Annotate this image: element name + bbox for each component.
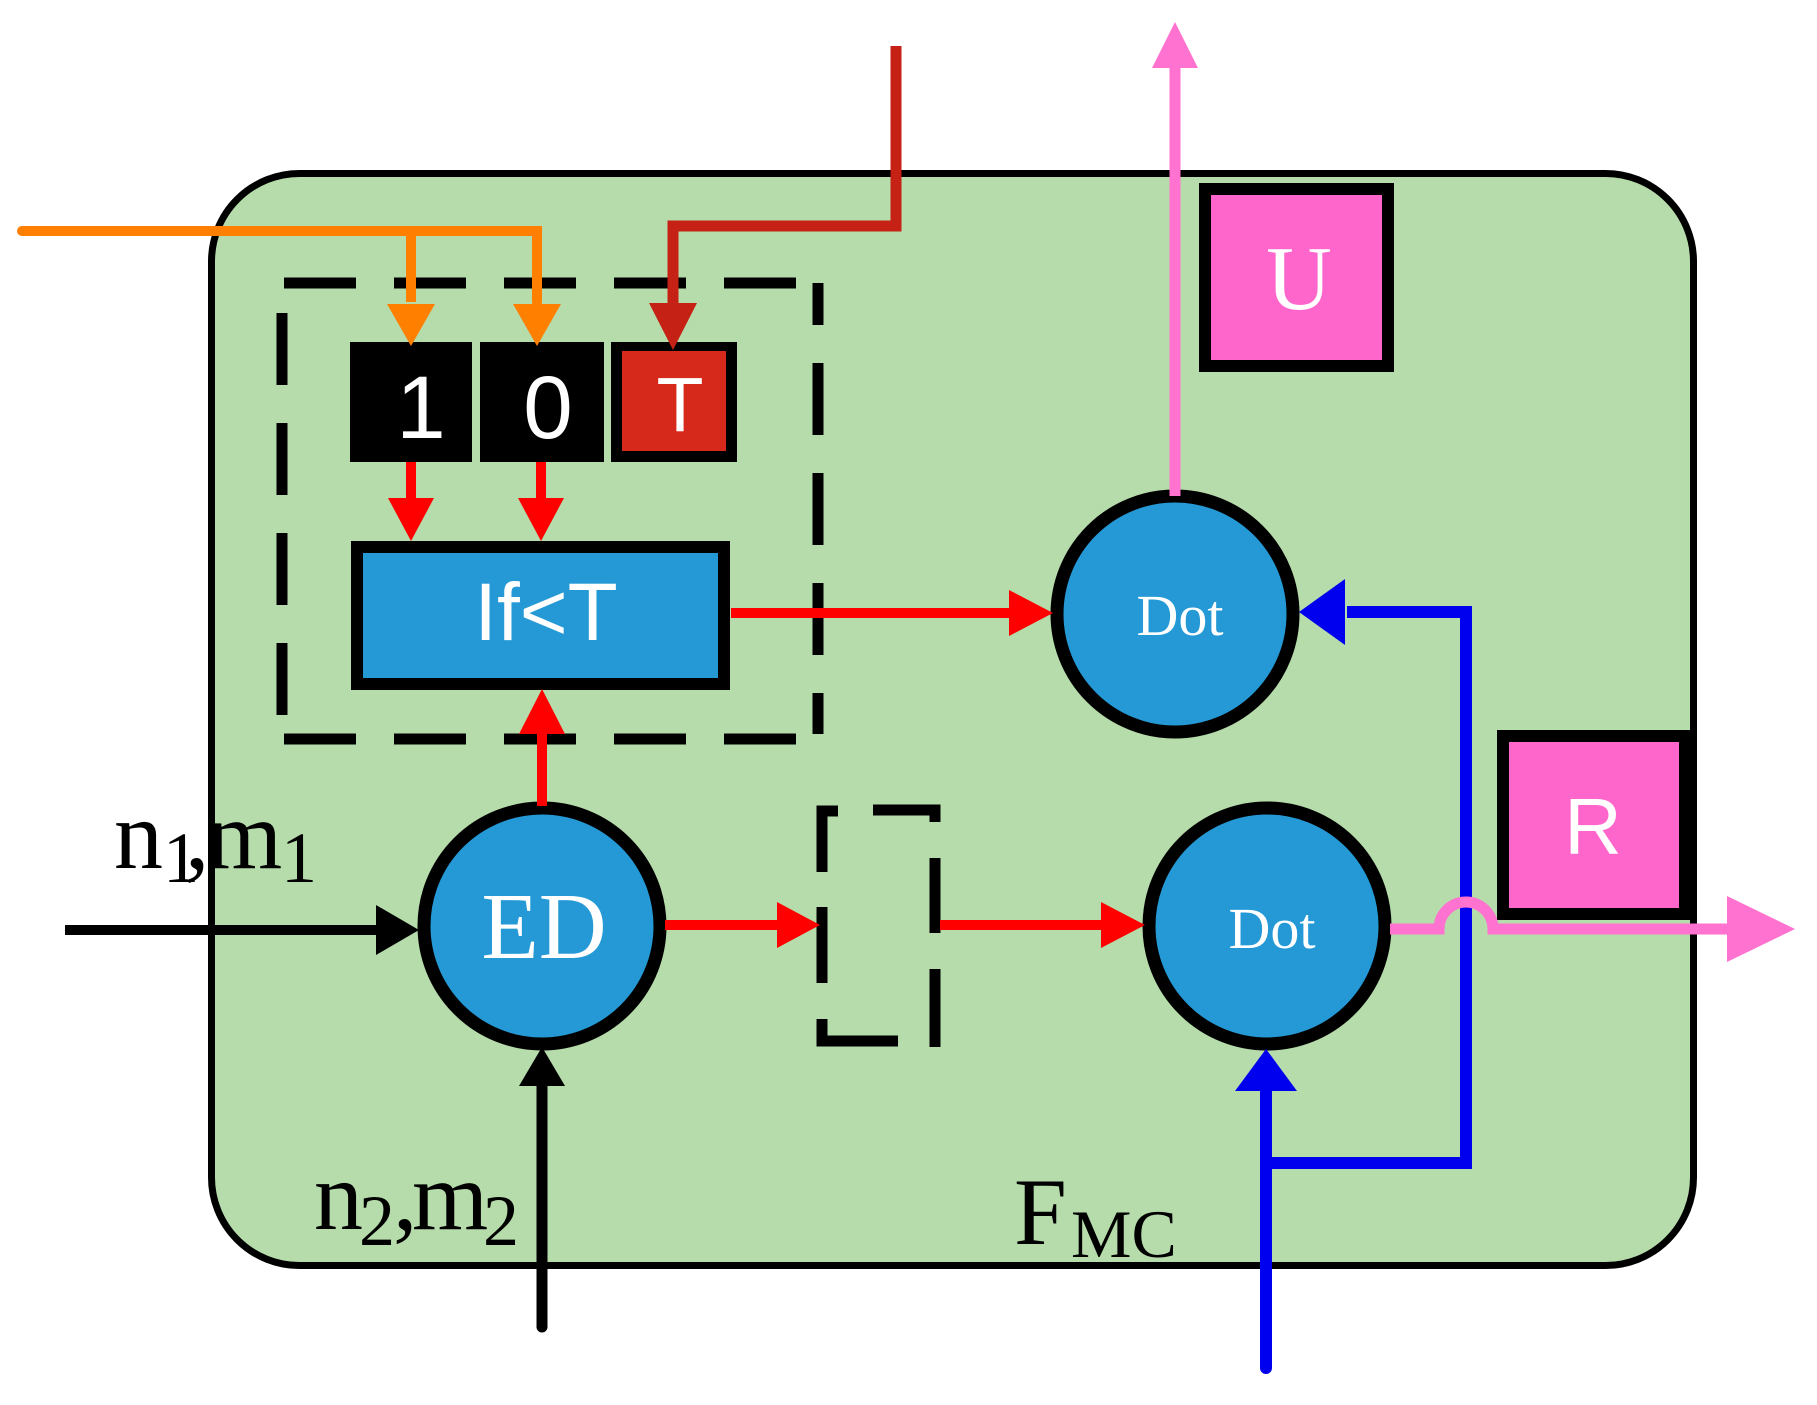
label F_MC: [1014, 1159, 1177, 1272]
svg-text:F: F: [1014, 1159, 1067, 1265]
svg-text:0: 0: [523, 357, 573, 457]
svg-text:R: R: [1564, 782, 1622, 871]
svg-text:2: 2: [483, 1181, 519, 1261]
svg-text:n: n: [114, 782, 163, 890]
svg-text:m: m: [206, 782, 282, 890]
label n1,m1: [114, 782, 317, 898]
blue input wire to lower Dot: [1260, 1087, 1272, 1368]
register cell 1: [350, 342, 472, 462]
orange arrowhead into cell 1: [387, 304, 435, 346]
label n2,m2: [314, 1143, 519, 1261]
ED circle: [424, 808, 660, 1044]
svg-text:m: m: [412, 1143, 488, 1251]
black input arrow n1,m1: [65, 925, 380, 935]
svg-text:MC: MC: [1071, 1196, 1177, 1272]
orange branch wire to cell 1: [406, 226, 416, 302]
red wire If<T to upper Dot: [731, 608, 1012, 618]
Dot circle lower: [1149, 808, 1385, 1044]
R output box: [1503, 736, 1685, 914]
svg-text:1: 1: [281, 818, 317, 898]
red wire cell0 to If<T: [536, 462, 546, 503]
dashed bracket node: [822, 810, 935, 1047]
svg-text:n: n: [314, 1143, 363, 1251]
svg-text:U: U: [1266, 228, 1332, 329]
red wire ED to bracket: [665, 920, 780, 930]
black input arrow n2,m2: [537, 1086, 548, 1327]
Dot circle upper: [1057, 496, 1293, 732]
orange input wire: [22, 231, 537, 302]
red wire bracket to lower Dot: [940, 920, 1104, 930]
dashed selection box around threshold unit: [282, 283, 818, 739]
orange arrowhead into cell 0: [513, 304, 561, 346]
register cell 0: [480, 342, 604, 462]
dark red T input wire: [673, 46, 896, 305]
dark red arrowhead into cell T: [649, 303, 697, 350]
svg-text:Dot: Dot: [1137, 583, 1224, 648]
block F_MC container: [212, 174, 1694, 1266]
svg-text:1: 1: [396, 357, 446, 457]
comparator If<T: [357, 547, 724, 684]
register cell T: [611, 342, 737, 462]
blue branch wire to upper Dot: [1266, 612, 1466, 1163]
svg-text:Dot: Dot: [1229, 896, 1316, 961]
red wire ED to If<T: [537, 730, 547, 806]
red wire cell1 to If<T: [406, 462, 416, 503]
pink output wire U from upper Dot: [1170, 68, 1181, 496]
svg-text:ED: ED: [481, 875, 606, 979]
U output box: [1205, 189, 1388, 366]
pink output wire R from lower Dot with hop: [1390, 902, 1727, 929]
svg-text:If<T: If<T: [474, 567, 618, 658]
svg-text:2: 2: [359, 1181, 395, 1261]
svg-text:T: T: [656, 362, 703, 448]
